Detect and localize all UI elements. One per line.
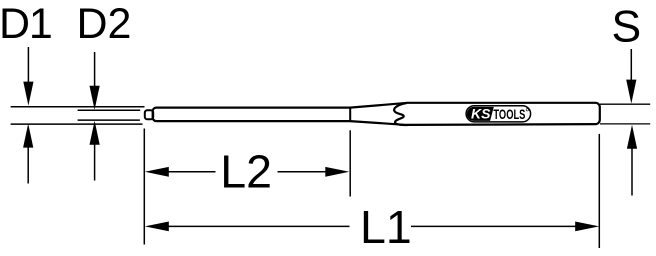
L2 dimension line with arrows [145, 167, 349, 177]
shaft/taper junction edge [349, 107, 351, 123]
arrow S up [627, 125, 637, 196]
L2 right extension line [349, 130, 351, 196]
tool body outline [153, 103, 600, 125]
arrow D1 down [23, 47, 33, 106]
svg-text:KS: KS [471, 107, 491, 122]
S extension line top [600, 103, 650, 105]
left extension line (L1/L2) [143, 129, 145, 245]
svg-text:D2: D2 [77, 0, 132, 48]
pin D1 outline bottom line [11, 123, 143, 125]
KS TOOLS logo [466, 106, 530, 123]
pin D2 top line [78, 109, 141, 111]
pin D2 bottom line [78, 119, 140, 121]
arrow D1 up [23, 124, 33, 184]
arrow D2 down [90, 52, 100, 110]
svg-text:TOOLS: TOOLS [493, 107, 525, 122]
handle wave detail [394, 103, 407, 125]
svg-text:L2: L2 [220, 145, 272, 197]
L1 dimension line with arrows [145, 222, 599, 232]
tool tip stub [145, 110, 153, 119]
pin D1 outline top line [11, 106, 145, 108]
svg-text:D1: D1 [0, 0, 52, 48]
svg-text:S: S [612, 3, 642, 52]
L1 right extension line [598, 134, 600, 248]
arrow D2 up [90, 121, 100, 181]
svg-text:L1: L1 [360, 201, 412, 253]
arrow S down [626, 49, 636, 104]
S extension line bottom [600, 123, 650, 125]
